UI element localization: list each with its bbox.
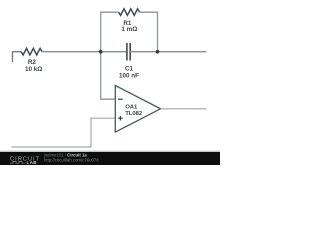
op-amp OA1 triangle — [115, 86, 160, 133]
svg-text:LAB: LAB — [27, 160, 38, 165]
wire R2 to node A — [42, 51, 101, 53]
op-amp minus symbol — [118, 98, 123, 100]
wire output — [161, 108, 207, 110]
wire vertical feedback right — [157, 12, 159, 52]
svg-text:1 mΩ: 1 mΩ — [121, 26, 137, 33]
wire feedback top right segment — [140, 11, 159, 13]
wire C1 to node B — [130, 51, 157, 53]
svg-text:R2: R2 — [28, 59, 37, 66]
resistor R1 — [119, 9, 140, 16]
wire noninverting step vertical — [90, 118, 92, 147]
wire bottom rail — [11, 146, 91, 148]
wire noninverting input horizontal — [91, 117, 115, 119]
junction node A — [99, 50, 103, 54]
wire feedback top left segment — [100, 11, 119, 13]
wire node B to right edge — [158, 51, 207, 53]
wire input stub vertical — [12, 51, 14, 62]
watermark bar shadow — [0, 150, 220, 152]
wire inverting input — [100, 98, 115, 100]
resistor R2 — [21, 48, 42, 55]
junction node B — [156, 50, 160, 54]
svg-text:10 kΩ: 10 kΩ — [25, 66, 42, 73]
wire vertical feedback left — [100, 12, 102, 100]
logo waveform — [10, 161, 25, 163]
svg-text:OA1: OA1 — [125, 105, 138, 111]
svg-text:TL082: TL082 — [125, 111, 143, 117]
svg-text:http://circuitlab.com/c76u078: http://circuitlab.com/c76u078 — [44, 157, 99, 162]
wire node A to C1 — [101, 51, 127, 53]
op-amp plus symbol — [118, 116, 123, 121]
wire input horizontal to R2 — [12, 51, 21, 53]
svg-text:100 nF: 100 nF — [119, 73, 139, 80]
watermark bar — [0, 152, 220, 165]
capacitor C1 — [127, 43, 130, 61]
